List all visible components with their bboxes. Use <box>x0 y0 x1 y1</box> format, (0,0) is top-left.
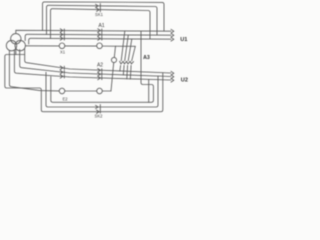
wire transformer tap <box>15 49 17 54</box>
output U2 chevrons <box>171 71 174 82</box>
wire top loop outer <box>43 2 165 31</box>
wire bus C <box>29 38 171 44</box>
svg-text:SK2: SK2 <box>95 114 104 119</box>
connector A1 <box>97 29 103 49</box>
wire drop to inner loop <box>148 79 150 102</box>
output U1 chevrons <box>171 29 174 41</box>
wire bottom inner loop 2 <box>51 31 154 102</box>
connector X1 <box>59 29 65 49</box>
transformer T1 <box>6 34 25 51</box>
wire bottom outer return loop <box>5 55 163 112</box>
wire bottom bus C <box>14 50 171 80</box>
svg-text:U2: U2 <box>181 78 188 84</box>
connector A3 column with lamp <box>111 31 135 91</box>
wire bottom neutral row <box>9 51 111 92</box>
wire bottom bus B <box>20 50 171 77</box>
wire bottom inner loop 1 <box>46 72 158 107</box>
svg-text:SK1: SK1 <box>95 12 104 17</box>
wire bottom outer loop <box>25 49 171 73</box>
wire top loop inner <box>51 9 151 39</box>
svg-text:A3: A3 <box>143 55 150 61</box>
switch SK2 <box>96 105 101 114</box>
svg-text:E2: E2 <box>62 96 68 101</box>
wire bus B <box>25 34 171 40</box>
connector A2 <box>97 69 103 94</box>
wire top loop middle <box>47 5 158 35</box>
svg-text:A2: A2 <box>97 63 103 69</box>
connector X2 <box>60 66 64 78</box>
svg-text:X1: X1 <box>60 50 66 55</box>
wire neutral row top <box>25 45 135 48</box>
svg-text:A1: A1 <box>98 23 104 29</box>
wire bus A <box>16 30 171 33</box>
switch SK1 <box>96 4 101 12</box>
svg-text:U1: U1 <box>180 37 187 43</box>
lamp E2 <box>59 88 65 94</box>
